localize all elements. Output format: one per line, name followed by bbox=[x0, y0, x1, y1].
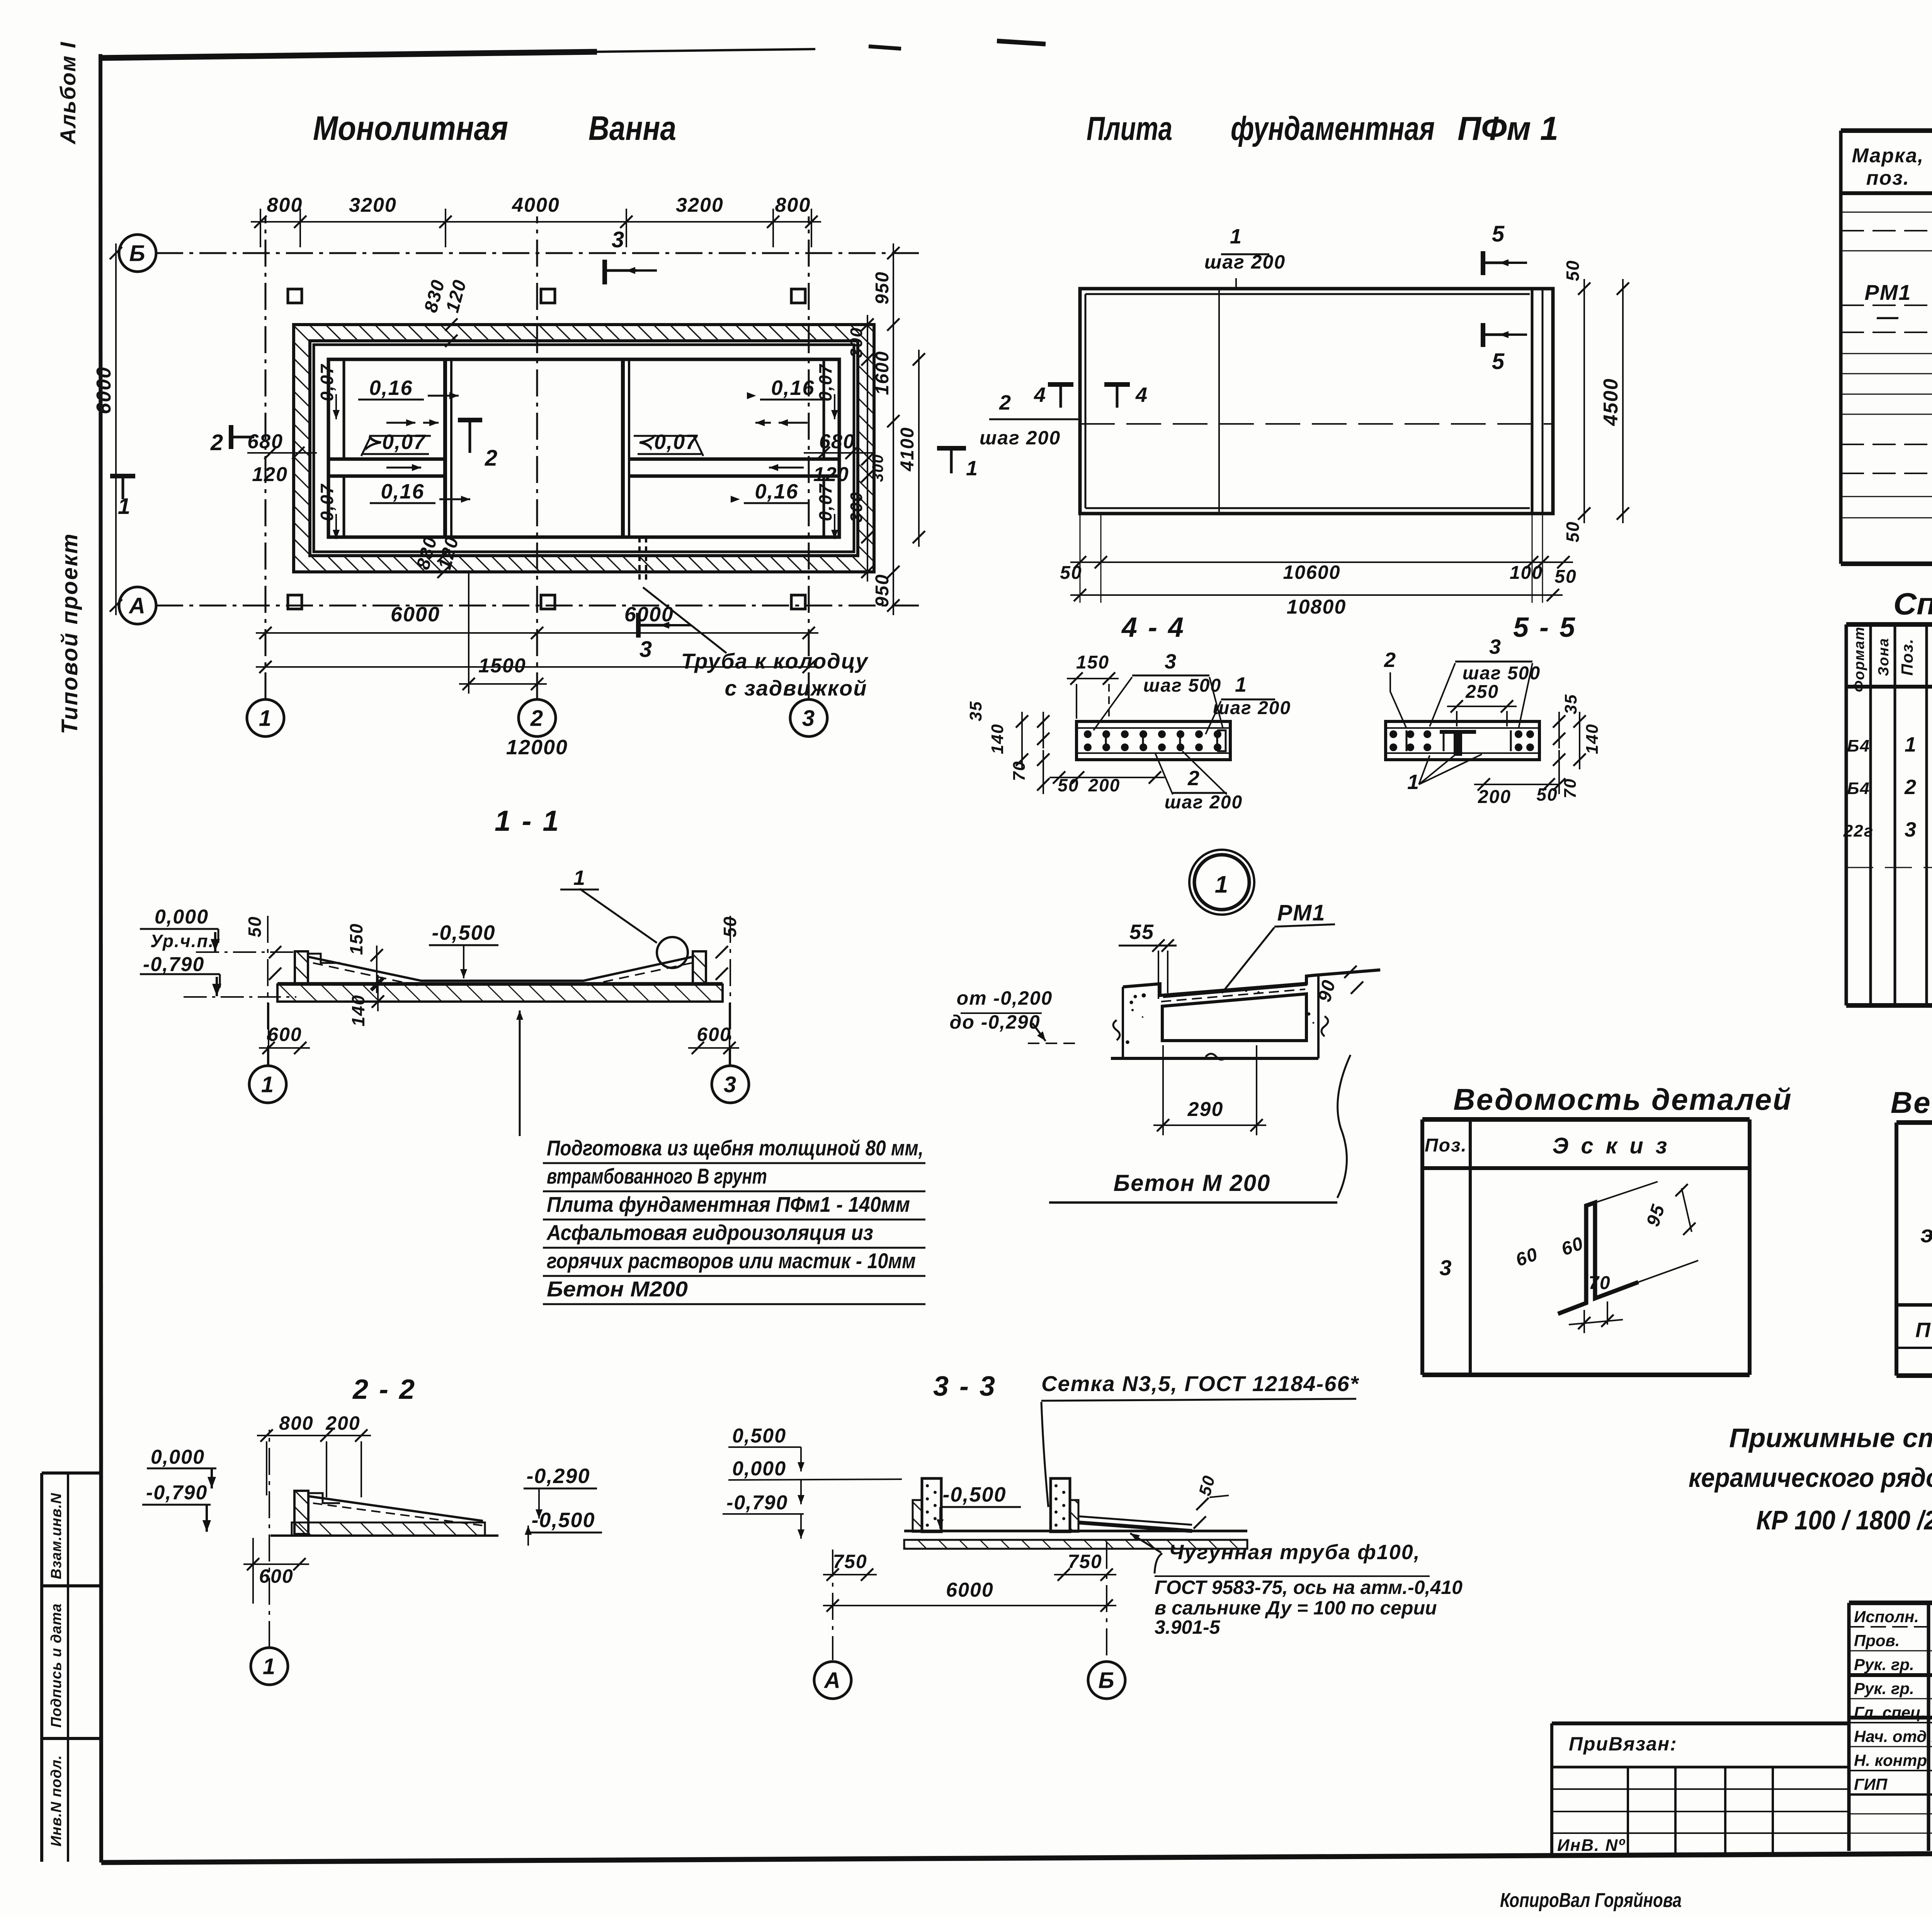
svg-text:50: 50 bbox=[1060, 563, 1082, 583]
svg-text:0,16: 0,16 bbox=[755, 480, 798, 503]
svg-text:4: 4 bbox=[1135, 383, 1148, 407]
svg-text:0,07: 0,07 bbox=[317, 483, 337, 521]
svg-text:4500: 4500 bbox=[1600, 378, 1622, 426]
svg-text:200: 200 bbox=[1088, 775, 1121, 795]
svg-text:ПФм 1: ПФм 1 bbox=[1915, 1318, 1932, 1342]
svg-text:1 - 1: 1 - 1 bbox=[495, 805, 560, 837]
svg-text:3: 3 bbox=[1489, 635, 1502, 658]
svg-text:Инв.N подл.: Инв.N подл. bbox=[48, 1755, 65, 1847]
svg-text:2: 2 bbox=[1384, 648, 1396, 672]
svg-text:от -0,200: от -0,200 bbox=[957, 987, 1053, 1009]
svg-text:150: 150 bbox=[346, 923, 366, 955]
svg-text:55: 55 bbox=[1129, 920, 1154, 944]
svg-text:750: 750 bbox=[833, 1551, 867, 1572]
svg-text:1600: 1600 bbox=[872, 351, 893, 395]
svg-text:4 - 4: 4 - 4 bbox=[1121, 612, 1185, 643]
svg-text:Ведомость расхода стали на: Ведомость расхода стали на элемент, кг bbox=[1891, 1085, 1932, 1119]
svg-text:250: 250 bbox=[1465, 682, 1499, 702]
svg-text:800: 800 bbox=[267, 194, 303, 216]
svg-text:150: 150 bbox=[1076, 652, 1109, 673]
svg-text:Поз.: Поз. bbox=[1898, 638, 1916, 676]
svg-text:Э с к и з: Э с к и з bbox=[1553, 1133, 1670, 1158]
svg-text:12000: 12000 bbox=[506, 736, 568, 759]
svg-text:Зона: Зона bbox=[1876, 638, 1892, 676]
svg-text:РМ1: РМ1 bbox=[1277, 900, 1325, 925]
svg-text:800: 800 bbox=[279, 1412, 313, 1434]
svg-text:1: 1 bbox=[259, 706, 272, 731]
svg-text:35: 35 bbox=[966, 701, 985, 721]
svg-text:800: 800 bbox=[775, 194, 811, 216]
svg-text:-0,290: -0,290 bbox=[526, 1465, 590, 1488]
svg-text:680: 680 bbox=[247, 430, 283, 453]
svg-text:-0,790: -0,790 bbox=[143, 953, 204, 976]
svg-text:3: 3 bbox=[639, 637, 653, 662]
svg-text:1: 1 bbox=[573, 866, 586, 890]
svg-text:до -0,290: до -0,290 bbox=[949, 1011, 1040, 1033]
svg-text:Плита фундаментная ПФм1 -: Плита фундаментная ПФм1 - 140мм bbox=[547, 1192, 910, 1216]
svg-text:600: 600 bbox=[267, 1024, 302, 1045]
svg-text:КопироВал Горяйнова: КопироВал Горяйнова bbox=[1500, 1889, 1682, 1912]
svg-text:1: 1 bbox=[263, 1654, 276, 1679]
svg-text:1: 1 bbox=[966, 457, 978, 480]
svg-text:Рук. гр.: Рук. гр. bbox=[1854, 1679, 1914, 1698]
svg-text:290: 290 bbox=[1187, 1098, 1224, 1121]
svg-text:300: 300 bbox=[847, 492, 866, 522]
svg-text:1: 1 bbox=[1905, 733, 1917, 756]
svg-text:100: 100 bbox=[1510, 563, 1543, 583]
svg-text:50: 50 bbox=[1554, 566, 1577, 587]
svg-text:2: 2 bbox=[210, 430, 224, 455]
svg-text:Типовой проект: Типовой проект bbox=[57, 532, 82, 734]
svg-text:140: 140 bbox=[1583, 723, 1602, 754]
svg-text:Формат: Формат bbox=[1851, 626, 1867, 692]
svg-text:70: 70 bbox=[1588, 1273, 1611, 1293]
svg-text:≻0,07: ≻0,07 bbox=[364, 430, 426, 454]
svg-text:Подготовка из щебня толщиной 8: Подготовка из щебня толщиной 80 мм, bbox=[547, 1136, 923, 1160]
svg-text:Б4: Б4 bbox=[1847, 737, 1870, 755]
svg-text:3: 3 bbox=[1439, 1255, 1452, 1280]
svg-text:3.901-5: 3.901-5 bbox=[1155, 1616, 1221, 1638]
svg-text:Рук. гр.: Рук. гр. bbox=[1854, 1655, 1914, 1674]
svg-text:Б4: Б4 bbox=[1847, 779, 1870, 798]
svg-text:3200: 3200 bbox=[349, 194, 397, 216]
svg-text:1500: 1500 bbox=[478, 655, 526, 677]
svg-text:140: 140 bbox=[348, 995, 368, 1027]
svg-text:ПриВязан:: ПриВязан: bbox=[1569, 1733, 1677, 1755]
svg-text:≺0,07: ≺0,07 bbox=[636, 430, 698, 454]
svg-text:600: 600 bbox=[259, 1565, 293, 1587]
svg-text:1: 1 bbox=[261, 1072, 274, 1097]
svg-text:горячих растворов или масти: горячих растворов или мастик - 10мм bbox=[547, 1249, 916, 1273]
svg-text:6000: 6000 bbox=[391, 603, 440, 626]
svg-text:5: 5 bbox=[1492, 221, 1505, 247]
svg-text:Ванна: Ванна bbox=[588, 109, 676, 147]
svg-text:5: 5 bbox=[1492, 349, 1505, 374]
svg-text:140: 140 bbox=[988, 723, 1007, 754]
svg-text:Исполн.: Исполн. bbox=[1854, 1607, 1919, 1626]
svg-text:ПФм 1: ПФм 1 bbox=[1458, 110, 1558, 147]
svg-text:200: 200 bbox=[1478, 787, 1511, 807]
svg-text:Гл. спец.: Гл. спец. bbox=[1854, 1703, 1925, 1721]
svg-text:керамического рядового полно: керамического рядового полнотелого обыкн… bbox=[1689, 1463, 1932, 1493]
svg-text:в сальнике Ду = 100 по серии: в сальнике Ду = 100 по серии bbox=[1155, 1597, 1437, 1619]
svg-text:10600: 10600 bbox=[1283, 561, 1340, 583]
svg-text:2: 2 bbox=[1904, 776, 1917, 799]
svg-text:3: 3 bbox=[802, 706, 815, 731]
svg-text:950: 950 bbox=[872, 271, 893, 304]
svg-text:3: 3 bbox=[1905, 818, 1917, 841]
svg-text:22г: 22г bbox=[1843, 822, 1874, 840]
svg-text:1: 1 bbox=[1215, 871, 1229, 898]
svg-text:А: А bbox=[128, 593, 146, 618]
svg-text:ГОСТ 9583-75, ось на атм.-0,41: ГОСТ 9583-75, ось на атм.-0,410 bbox=[1155, 1577, 1463, 1598]
svg-text:4: 4 bbox=[1034, 383, 1046, 407]
svg-text:50: 50 bbox=[245, 916, 265, 937]
svg-text:Нач. отд.: Нач. отд. bbox=[1854, 1727, 1931, 1745]
svg-text:70: 70 bbox=[1010, 761, 1029, 781]
svg-text:50: 50 bbox=[1563, 260, 1583, 281]
svg-text:Асфальтовая гидроизоляция и: Асфальтовая гидроизоляция из bbox=[546, 1220, 873, 1245]
svg-text:Плита: Плита bbox=[1087, 110, 1172, 147]
svg-text:0,16: 0,16 bbox=[369, 376, 413, 400]
svg-text:фундаментная: фундаментная bbox=[1231, 110, 1435, 147]
svg-text:2: 2 bbox=[485, 446, 498, 471]
svg-text:Н. контр.: Н. контр. bbox=[1854, 1751, 1932, 1769]
svg-text:шаг 200: шаг 200 bbox=[980, 427, 1061, 449]
svg-text:0,000: 0,000 bbox=[155, 906, 209, 928]
svg-text:шаг 200: шаг 200 bbox=[1204, 251, 1286, 273]
svg-text:Бетон М 200: Бетон М 200 bbox=[1114, 1170, 1271, 1196]
svg-text:Поз.: Поз. bbox=[1425, 1135, 1467, 1156]
svg-text:-0,500: -0,500 bbox=[432, 921, 495, 944]
svg-text:Чугунная труба ф100,: Чугунная труба ф100, bbox=[1169, 1541, 1420, 1564]
svg-text:-0,500: -0,500 bbox=[942, 1483, 1006, 1506]
svg-text:50: 50 bbox=[1563, 521, 1583, 542]
svg-text:-0,500: -0,500 bbox=[531, 1509, 595, 1532]
svg-text:РМ1: РМ1 bbox=[1864, 280, 1911, 304]
svg-text:Альбом I: Альбом I bbox=[56, 41, 80, 145]
svg-text:2: 2 bbox=[999, 391, 1012, 414]
svg-text:Труба к колодцу: Труба к колодцу bbox=[681, 649, 869, 673]
svg-text:10800: 10800 bbox=[1287, 596, 1347, 618]
svg-text:50: 50 bbox=[1058, 775, 1079, 795]
svg-text:0,07: 0,07 bbox=[815, 483, 835, 521]
svg-text:0,500: 0,500 bbox=[732, 1425, 786, 1447]
svg-text:Монолитная: Монолитная bbox=[313, 109, 508, 147]
svg-text:3: 3 bbox=[724, 1072, 737, 1097]
svg-text:Пров.: Пров. bbox=[1854, 1631, 1900, 1650]
svg-text:0,000: 0,000 bbox=[151, 1446, 205, 1468]
svg-text:с задвижкой: с задвижкой bbox=[724, 676, 867, 700]
svg-text:6000: 6000 bbox=[93, 366, 115, 414]
svg-text:4100: 4100 bbox=[897, 427, 918, 472]
svg-text:Спецификация к плите фунда: Спецификация к плите фундаментной ПФм 1 bbox=[1893, 587, 1932, 621]
svg-text:300: 300 bbox=[869, 454, 886, 482]
svg-text:Ведомость деталей: Ведомость деталей bbox=[1453, 1082, 1792, 1116]
svg-text:0,07: 0,07 bbox=[815, 364, 835, 401]
svg-text:-0,790: -0,790 bbox=[726, 1492, 788, 1514]
svg-text:0,07: 0,07 bbox=[317, 364, 337, 401]
svg-text:120: 120 bbox=[252, 463, 288, 486]
svg-text:поз.: поз. bbox=[1866, 167, 1910, 189]
svg-text:750: 750 bbox=[1068, 1551, 1102, 1572]
svg-text:—: — bbox=[1876, 304, 1899, 328]
svg-text:0,000: 0,000 bbox=[732, 1458, 786, 1480]
svg-text:Б: Б bbox=[1098, 1668, 1115, 1693]
svg-text:Бетон М200: Бетон М200 bbox=[547, 1277, 688, 1301]
svg-text:3: 3 bbox=[1165, 650, 1177, 673]
svg-text:2: 2 bbox=[1187, 767, 1200, 790]
svg-text:-0,790: -0,790 bbox=[146, 1482, 207, 1504]
svg-text:Подпись и дата: Подпись и дата bbox=[48, 1603, 65, 1728]
svg-text:1: 1 bbox=[1235, 673, 1247, 696]
svg-text:3 - 3: 3 - 3 bbox=[933, 1371, 997, 1402]
svg-text:950: 950 bbox=[872, 574, 893, 607]
svg-text:6000: 6000 bbox=[946, 1579, 994, 1601]
svg-text:Сетка N3,5, ГОСТ 12184-66*: Сетка N3,5, ГОСТ 12184-66* bbox=[1041, 1371, 1359, 1396]
svg-text:50: 50 bbox=[1536, 784, 1558, 805]
svg-text:120: 120 bbox=[813, 463, 849, 486]
svg-text:Прижимные стенки Выполнять д: Прижимные стенки Выполнять до устройства… bbox=[1729, 1423, 1932, 1453]
svg-text:Ур.ч.п.: Ур.ч.п. bbox=[150, 931, 214, 951]
svg-text:35: 35 bbox=[1561, 694, 1580, 714]
svg-text:Марка,: Марка, bbox=[1852, 145, 1924, 167]
svg-text:ИнВ. Nº: ИнВ. Nº bbox=[1557, 1836, 1625, 1855]
svg-text:шаг 200: шаг 200 bbox=[1165, 792, 1243, 813]
svg-text:1: 1 bbox=[1230, 225, 1242, 248]
svg-text:1: 1 bbox=[118, 494, 131, 519]
svg-text:1: 1 bbox=[1407, 771, 1420, 794]
svg-text:4000: 4000 bbox=[512, 194, 560, 216]
svg-text:КР 100 / 1800 /25 ГОСТ 530 - 8: КР 100 / 1800 /25 ГОСТ 530 - 80 на цемен… bbox=[1756, 1505, 1932, 1535]
svg-text:Взам.инв.N: Взам.инв.N bbox=[48, 1493, 65, 1579]
svg-text:Б: Б bbox=[129, 241, 146, 266]
svg-text:3: 3 bbox=[612, 227, 625, 252]
svg-text:А: А bbox=[823, 1668, 841, 1693]
svg-text:3200: 3200 bbox=[676, 194, 724, 216]
svg-text:0,16: 0,16 bbox=[771, 376, 815, 400]
svg-text:шаг 200: шаг 200 bbox=[1213, 698, 1291, 718]
svg-text:элемента: элемента bbox=[1920, 1221, 1932, 1248]
svg-text:ГИП: ГИП bbox=[1854, 1775, 1888, 1793]
svg-text:2 - 2: 2 - 2 bbox=[352, 1374, 416, 1405]
svg-text:0,16: 0,16 bbox=[381, 480, 424, 503]
svg-text:5 - 5: 5 - 5 bbox=[1513, 612, 1577, 643]
svg-text:300: 300 bbox=[847, 327, 866, 357]
svg-text:600: 600 bbox=[697, 1024, 731, 1045]
svg-text:2: 2 bbox=[530, 706, 544, 731]
svg-text:втрамбованного В грунт: втрамбованного В грунт bbox=[547, 1164, 767, 1188]
svg-text:680: 680 bbox=[819, 430, 855, 453]
